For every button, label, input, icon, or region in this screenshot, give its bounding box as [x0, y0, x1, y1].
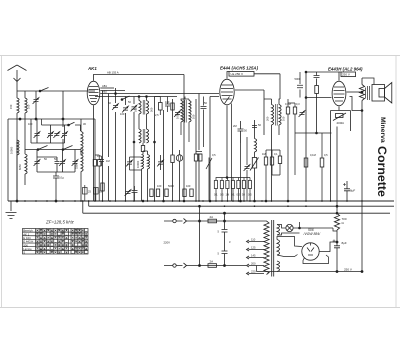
- tuning gang cap 3: [53, 133, 59, 138]
- cap small x167: [165, 97, 170, 113]
- vertical left x8: [7, 119, 9, 201]
- svg-text:150: 150: [9, 104, 13, 109]
- svg-text:Ua 250 V: Ua 250 V: [231, 72, 244, 76]
- svg-text:2,5: 2,5: [155, 113, 159, 117]
- speaker cone: [385, 83, 392, 104]
- table cell mark strokes: [36, 229, 87, 253]
- resistor IF2 b: [293, 107, 296, 114]
- transformer core: [272, 220, 274, 277]
- svg-text:AB1: AB1: [102, 84, 107, 88]
- junction on bus 2 x=199.5: [199, 205, 201, 207]
- svg-text:200Ω: 200Ω: [337, 121, 345, 125]
- grid line x316.5: [317, 79, 332, 134]
- grid resistor: [315, 86, 319, 94]
- junction on ground bus x=244: [243, 200, 245, 202]
- rectifier tube 506: [302, 243, 319, 260]
- E444 bottom: [226, 106, 228, 178]
- svg-text:0,3: 0,3: [296, 102, 300, 106]
- pilot wires: [277, 222, 333, 235]
- plus psu: [333, 240, 336, 243]
- svg-text:0,1M: 0,1M: [310, 153, 316, 157]
- svg-text:100: 100: [120, 112, 125, 116]
- svg-text:1M: 1M: [226, 193, 230, 197]
- coil ant 1: [17, 98, 19, 113]
- junction on bus 2 x=224.5: [224, 205, 226, 207]
- IF1 coil right: [147, 101, 149, 115]
- bus line 2: [89, 205, 394, 207]
- svg-text:220: 220: [251, 270, 256, 274]
- wire top speaker: [362, 78, 374, 85]
- tuning gang cap 1: [36, 119, 38, 143]
- AK1 stem to screen line: [94, 75, 185, 81]
- IF2 coil right: [279, 105, 281, 126]
- junction on bus 2 x=288: [287, 205, 289, 207]
- psu bottom wire: [257, 271, 363, 273]
- mains link vertical: [199, 206, 201, 265]
- bus line 3: [83, 212, 390, 214]
- padder frame wires: [37, 157, 75, 172]
- E444 stem top: [227, 72, 280, 79]
- junction on ground bus x=81: [80, 200, 82, 202]
- AK1 grid long wire: [100, 93, 219, 95]
- resistor IF2 a: [286, 107, 289, 114]
- tube E444: [220, 79, 234, 105]
- tuning gang cap 2: [50, 125, 52, 143]
- speaker main vertical: [361, 78, 363, 272]
- resistor b2: [156, 189, 159, 197]
- svg-text:0,1μ: 0,1μ: [59, 176, 65, 180]
- trimmer tuned: [174, 112, 180, 117]
- trimmer m3: [131, 106, 137, 111]
- resistor 700 zigzag: [334, 214, 339, 243]
- AK1 cathode resistor a: [93, 160, 96, 167]
- svg-text:1000: 1000: [176, 113, 180, 119]
- volume pot: [252, 158, 256, 169]
- cathode pot arrow: [333, 113, 346, 121]
- rect output wire: [319, 242, 337, 252]
- resistor b3: [165, 189, 168, 197]
- bottom cap row a: [132, 186, 138, 201]
- svg-text:100: 100: [282, 116, 286, 121]
- AK1 cathode resistor b: [98, 160, 101, 167]
- junction on ground bus x=203: [202, 200, 204, 202]
- AK1 wire AB2: [100, 90, 125, 92]
- junction dots grid: [305, 97, 307, 99]
- det verticals: [232, 104, 248, 202]
- wire grid horizontal: [306, 97, 332, 99]
- mains plug top: [173, 219, 176, 222]
- avc divider resistor 5: [237, 181, 240, 189]
- E443H stem: [306, 72, 341, 81]
- svg-text:100: 100: [157, 184, 162, 188]
- resistor b4: [183, 189, 186, 197]
- pilot lamp: [286, 224, 293, 231]
- resistor x172 mid: [171, 155, 174, 163]
- cap x203: [201, 107, 207, 109]
- svg-text:10000: 10000: [10, 146, 14, 154]
- band switch 1: [38, 146, 48, 150]
- table cell marks: [23, 229, 33, 255]
- junction on ground bus x=134: [133, 200, 135, 202]
- junction on ground bus x=95: [94, 200, 96, 202]
- elco 25 box a: [83, 188, 88, 195]
- junction on ground bus x=147.5: [147, 200, 149, 202]
- trimmer left out: [299, 112, 305, 117]
- junction on ground bus x=47: [46, 200, 48, 202]
- vertical x199: [198, 94, 200, 202]
- page border right: [395, 55, 397, 308]
- IF2 core: [276, 104, 278, 126]
- vertical x322: [321, 133, 323, 201]
- svg-text:6050: 6050: [18, 164, 22, 170]
- af coupling wire: [295, 132, 317, 134]
- IF1 lower coil left: [139, 129, 141, 143]
- page border top: [0, 55, 400, 57]
- junction on ground bus x=179.5: [179, 200, 181, 202]
- switch ant2: [42, 122, 81, 131]
- coil ant 2: [25, 98, 27, 113]
- secondary pilot winding: [277, 225, 280, 236]
- avc divider resistor 2: [220, 181, 223, 189]
- left small cap: [99, 156, 104, 166]
- measurement table grid: [23, 229, 89, 255]
- junction on ground bus x=102.5: [102, 200, 104, 202]
- transformer taps: [249, 242, 265, 274]
- resistor b1: [150, 189, 153, 197]
- junction on ground bus x=75: [74, 200, 76, 202]
- IF1 lower coil right: [147, 129, 149, 143]
- wire x17 lower: [17, 155, 25, 201]
- svg-text:AB 155 A: AB 155 A: [107, 71, 119, 75]
- resistor 2.5: [159, 103, 163, 111]
- af choke coil: [255, 139, 257, 153]
- osc tuned coil right: [189, 101, 191, 123]
- left resistor bottom: [101, 183, 104, 191]
- mains wire bottom: [164, 265, 246, 267]
- resistor 0.1M: [304, 158, 308, 167]
- cathode resistor 200: [336, 114, 344, 118]
- bus drop 3: [82, 201, 84, 213]
- tube AK1: [87, 81, 100, 105]
- junction on ground bus x=222: [221, 200, 223, 202]
- IF2 wires: [264, 99, 280, 201]
- svg-text:E444 (ACH5 125A): E444 (ACH5 125A): [220, 66, 259, 71]
- junction on ground bus x=216: [215, 200, 217, 202]
- vertical x203.5: [203, 97, 205, 148]
- junction dots det: [226, 177, 228, 179]
- svg-text:S: S: [23, 251, 25, 255]
- resistor x190 mid: [194, 154, 197, 161]
- junction on ground bus x=238.5: [238, 200, 240, 202]
- junction on ground bus x=233: [232, 200, 234, 202]
- junction on ground bus x=254.5: [254, 200, 256, 202]
- vertical x81: [80, 119, 82, 201]
- avc divider resistor 4: [231, 181, 234, 189]
- tuning gang cap 4: [64, 125, 66, 143]
- secondary heater winding: [277, 261, 280, 272]
- junction on ground bus x=347: [346, 200, 348, 202]
- cap 8uF psu: [334, 242, 340, 272]
- svg-text:200: 200: [251, 262, 256, 266]
- mains plug bottom: [173, 264, 176, 267]
- line filter caps: [222, 213, 228, 265]
- svg-text:100: 100: [27, 104, 31, 109]
- junction on bus 2 x=254.5: [254, 205, 256, 207]
- svg-text:3300: 3300: [75, 163, 79, 169]
- avc row bottom stubs: [216, 189, 250, 202]
- vertical antenna line: [16, 91, 18, 201]
- svg-text:10000: 10000: [136, 160, 140, 168]
- svg-text:110: 110: [251, 238, 256, 242]
- fuse top: [208, 219, 217, 223]
- cap 50 if: [252, 126, 257, 128]
- antenna: [8, 65, 27, 91]
- junction speaker: [361, 110, 363, 112]
- svg-text:100: 100: [28, 122, 33, 126]
- padder cap 1: [36, 150, 38, 173]
- junction on ground bus x=288: [287, 200, 289, 202]
- plus mark: [343, 183, 346, 186]
- svg-text:2A: 2A: [210, 215, 214, 219]
- trimmer m2: [122, 107, 128, 112]
- junction on ground bus x=250: [249, 200, 251, 202]
- AK1 cathode down: [93, 105, 95, 201]
- junction on ground bus x=172.5: [172, 200, 174, 202]
- svg-text:0,5: 0,5: [324, 153, 328, 157]
- svg-text:1M: 1M: [106, 159, 110, 163]
- rect heater loop: [303, 255, 329, 264]
- switch row wires: [25, 150, 81, 155]
- cap ant coupling: [35, 91, 37, 119]
- plate to speaker: [347, 91, 363, 93]
- resistor link mid: [141, 146, 144, 152]
- vertical x280: [279, 74, 281, 99]
- cap grid: [314, 76, 320, 78]
- svg-text:AB2: AB2: [102, 89, 107, 93]
- avc divider resistor 1: [214, 181, 217, 189]
- junction dots frontend: [19, 118, 21, 120]
- coil 3300: [81, 132, 83, 172]
- trimmer osc low: [130, 157, 142, 170]
- cap 8uF out: [344, 181, 350, 201]
- tap arrows: [247, 240, 250, 275]
- junction on ground bus x=262: [261, 200, 263, 202]
- switch on antenna row: [40, 88, 49, 92]
- vertical x184: [183, 75, 185, 202]
- svg-text:200: 200: [266, 116, 270, 121]
- padder cap 3: [74, 150, 76, 173]
- elco 25 box b: [94, 188, 99, 195]
- svg-text:8μF: 8μF: [342, 241, 347, 245]
- vertical x337 psu top: [336, 127, 338, 214]
- svg-text:220V: 220V: [164, 241, 171, 245]
- svg-text:250 V: 250 V: [342, 73, 350, 77]
- diode det plates: [196, 152, 202, 158]
- svg-text:/VGW 884/: /VGW 884/: [303, 232, 322, 236]
- junction on bus 2 x=306: [305, 205, 307, 207]
- padder cap 2: [62, 150, 64, 173]
- svg-text:100: 100: [97, 154, 102, 158]
- ground bus main: [8, 200, 394, 202]
- junction on ground bus x=362: [361, 200, 363, 202]
- osc tuned wires: [181, 97, 189, 143]
- resistor x322: [320, 158, 324, 167]
- speaker field coil: [359, 85, 364, 101]
- junction on ground bus x=210: [209, 200, 211, 202]
- E444 right wire: [235, 90, 264, 135]
- avc divider resistor 6: [242, 181, 245, 189]
- ground symbol: [6, 201, 17, 219]
- junction on ground bus x=322: [321, 200, 323, 202]
- resistor pair c: [278, 156, 281, 164]
- junction on ground bus x=199: [198, 200, 200, 202]
- junction on ground bus x=306: [305, 200, 307, 202]
- vertical x95: [94, 119, 96, 201]
- resistor pair a: [264, 157, 267, 165]
- bus drop 2: [88, 201, 90, 206]
- E444 left wire: [210, 97, 219, 202]
- junction on ground bus x=25: [24, 200, 26, 202]
- junction on ground bus x=110: [109, 200, 111, 202]
- wire y96.5: [95, 96, 177, 98]
- trimmer det: [244, 166, 250, 171]
- svg-text:5000: 5000: [295, 77, 301, 81]
- AK1 cathode second line: [95, 155, 99, 201]
- svg-text:2M: 2M: [233, 124, 237, 128]
- vertical x300: [299, 72, 301, 98]
- junction on ground bus x=125.5: [125, 200, 127, 202]
- svg-text:100: 100: [186, 184, 191, 188]
- trimmer m1: [112, 105, 118, 110]
- trimmer osc low2: [160, 155, 162, 170]
- resistor pair b: [270, 157, 273, 165]
- svg-text:125: 125: [251, 246, 256, 250]
- svg-text:AK1: AK1: [87, 66, 97, 71]
- avc divider resistor 7: [248, 181, 251, 189]
- mains wire top: [164, 220, 265, 222]
- junction dots mixer: [138, 96, 140, 98]
- svg-text:1M: 1M: [262, 152, 266, 156]
- osc coil right: [148, 155, 150, 170]
- AK1 wire AB1: [100, 87, 114, 89]
- svg-text:0,1: 0,1: [274, 152, 278, 156]
- svg-text:0,5: 0,5: [220, 193, 224, 197]
- junction on ground bus x=36: [35, 200, 37, 202]
- junction on ground bus x=154.5: [154, 200, 156, 202]
- pot left: [206, 158, 212, 202]
- svg-text:145: 145: [251, 254, 256, 258]
- cap 0.1 to bus: [53, 172, 59, 201]
- IF2 coil left: [272, 105, 274, 126]
- IF1 coil left: [139, 101, 141, 115]
- svg-text:0,5: 0,5: [212, 153, 216, 157]
- svg-text:500: 500: [150, 107, 154, 112]
- electrolytic circle: [176, 155, 182, 161]
- E443H label box: [341, 72, 356, 77]
- coil 10000: [17, 140, 19, 155]
- avc row top wire: [216, 178, 250, 181]
- svg-text:250 V: 250 V: [344, 268, 352, 272]
- svg-text:0,5: 0,5: [248, 193, 252, 197]
- resistor x200 mid: [199, 154, 202, 161]
- transformer primary: [264, 221, 269, 275]
- osc coil left: [142, 155, 144, 170]
- svg-text:100: 100: [134, 107, 138, 112]
- junction on ground bus x=330.5: [330, 200, 332, 202]
- svg-text:2A: 2A: [210, 260, 214, 264]
- band switch 2: [63, 146, 73, 150]
- svg-text:Cornette: Cornette: [375, 146, 389, 197]
- output transformer winding: [366, 86, 370, 100]
- E444 label box: [229, 72, 254, 77]
- avc divider resistor 3: [226, 181, 229, 189]
- elbow wire speaker: [350, 97, 363, 111]
- coil 6050: [25, 154, 27, 174]
- wire antenna row: [17, 90, 95, 92]
- fuse bottom: [208, 264, 217, 268]
- junction on ground bus x=196: [195, 200, 197, 202]
- junction on ground bus x=63: [62, 200, 64, 202]
- junction on ground bus x=266: [265, 200, 267, 202]
- resistor x172 top: [171, 103, 174, 110]
- svg-text:8μF: 8μF: [350, 189, 355, 193]
- svg-text:Minerva: Minerva: [379, 117, 386, 143]
- svg-text:0,1: 0,1: [214, 193, 218, 197]
- mixer verticals: [103, 88, 197, 201]
- vertical x306: [305, 72, 307, 201]
- osc tuned core: [185, 100, 187, 123]
- svg-text:5000: 5000: [168, 184, 174, 188]
- vertical line x25: [24, 91, 26, 154]
- cathode network: [331, 107, 351, 202]
- junction on ground bus x=271.5: [271, 200, 273, 202]
- resistor b5: [190, 189, 193, 197]
- svg-text:0,1: 0,1: [231, 193, 235, 197]
- heater vert x256: [256, 266, 258, 272]
- IF1 lower core: [143, 129, 145, 143]
- cap 50 det: [238, 121, 244, 143]
- svg-text:E443H (AL2 964): E443H (AL2 964): [328, 67, 363, 72]
- cap x300: [297, 85, 303, 87]
- svg-text:0,3: 0,3: [237, 193, 241, 197]
- junction on ground bus x=115.5: [115, 200, 117, 202]
- rect HT wires: [277, 237, 302, 257]
- svg-text:100: 100: [192, 114, 196, 119]
- vertical x63: [62, 91, 64, 150]
- svg-text:0,1M: 0,1M: [285, 102, 291, 106]
- secondary HT winding: [277, 240, 280, 256]
- page border bottom: [0, 307, 400, 309]
- wire front-end horizontal: [8, 118, 95, 120]
- junction on ground bus x=227.5: [227, 200, 229, 202]
- switch mixer: [122, 96, 130, 100]
- tube E443H: [332, 81, 346, 106]
- osc tuned coil left: [181, 101, 183, 123]
- speaker body: [372, 85, 385, 102]
- IF1 core: [143, 100, 145, 115]
- svg-text:ZF=128,5 kHz: ZF=128,5 kHz: [45, 220, 75, 225]
- svg-text:100: 100: [165, 100, 170, 104]
- cap 50 mid: [55, 162, 60, 164]
- osc coil wires: [142, 151, 148, 201]
- IF1 wires: [139, 97, 147, 130]
- page border left: [1, 55, 3, 308]
- gang bottom wire: [31, 119, 65, 143]
- trimmer bottom: [125, 191, 131, 196]
